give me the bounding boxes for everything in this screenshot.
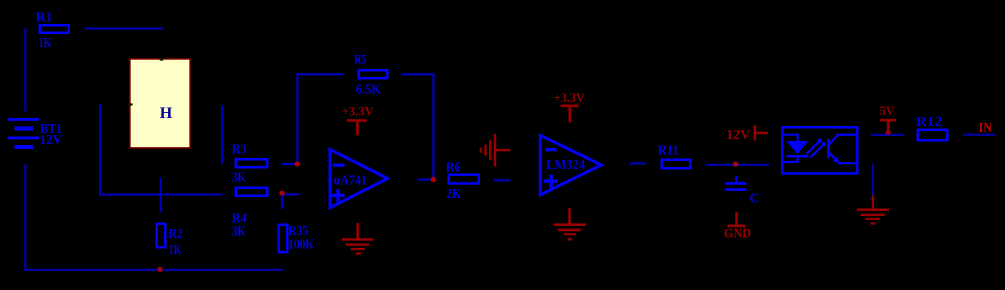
capacitor C — [725, 176, 760, 207]
pin tick top of hall — [160, 58, 164, 61]
svg-text:uA741: uA741 — [334, 172, 367, 187]
pin tick left of hall — [129, 103, 133, 105]
svg-text:5V: 5V — [880, 103, 896, 118]
svg-text:2K: 2K — [446, 187, 461, 202]
wire: opto collector to R12 rail — [871, 134, 903, 136]
svg-text:1K: 1K — [169, 243, 182, 258]
power +3.3V for uA741 — [342, 103, 375, 135]
wire: R6 to LM324 non-inverting — [494, 179, 510, 181]
svg-text:100K: 100K — [288, 238, 314, 253]
resistor R4 — [232, 188, 267, 240]
phototransistor Q base bar — [827, 139, 830, 159]
wire: R1 left vertical to battery — [24, 28, 26, 112]
emitter with arrow — [830, 153, 838, 162]
svg-text:6.5K: 6.5K — [356, 82, 381, 97]
power 5V — [880, 103, 896, 134]
junction dot output node — [431, 177, 436, 182]
wire: bottom rail — [24, 269, 283, 271]
wire: node B down to R35 — [281, 195, 283, 209]
resistor R2 — [157, 224, 183, 258]
resistor R5 — [354, 52, 387, 98]
svg-text:R12: R12 — [916, 115, 942, 130]
wire: hall left vertical — [99, 104, 101, 196]
junction dot on bottom rail — [157, 267, 162, 272]
wire: R1 right horizontal to Hall top — [85, 28, 163, 30]
emitter pin wire — [838, 162, 857, 164]
svg-text:1K: 1K — [39, 36, 52, 51]
resistor R11 — [658, 144, 691, 169]
hall sensor H — [130, 59, 190, 148]
junction dot at capacitor C — [733, 162, 738, 167]
junction dot node A (inverting input) — [294, 161, 299, 166]
junction dot node B (non-inverting input) — [279, 191, 284, 196]
svg-text:+3.3V: +3.3V — [342, 103, 375, 118]
wire: feedback top left horizontal — [296, 73, 343, 75]
svg-text:R2: R2 — [169, 227, 183, 242]
ground under uA741 — [342, 223, 374, 255]
LED cathode pin wire — [782, 161, 799, 163]
svg-text:R6: R6 — [446, 160, 461, 175]
power +3.3V for LM324 — [554, 90, 586, 122]
wire: LM324 output — [630, 162, 646, 164]
svg-text:R11: R11 — [658, 144, 679, 159]
op-amp U2 LM324 — [540, 135, 601, 195]
wire: R11 to optocoupler — [706, 164, 769, 166]
svg-text:GND: GND — [724, 226, 751, 241]
resistor R6 — [446, 160, 479, 202]
wire: uA741 output — [418, 179, 432, 181]
wire: battery bottom vertical — [24, 164, 26, 270]
LED D triangle — [787, 141, 809, 154]
optocoupler U3 — [782, 127, 857, 173]
wire: R3 to inverting node — [282, 163, 296, 165]
wire: R12 to IN port — [963, 134, 995, 136]
svg-text:IN: IN — [979, 120, 992, 135]
svg-text:3K: 3K — [232, 171, 246, 186]
ground under LM324 — [554, 208, 586, 240]
light arrow 2 — [811, 146, 823, 158]
resistor R1 — [36, 10, 69, 51]
svg-text:LM324: LM324 — [546, 158, 585, 173]
wire: mid rail under hall — [99, 194, 222, 196]
wire: opto emitter down to ground — [872, 164, 874, 195]
svg-text:+3.3V: +3.3V — [554, 90, 586, 105]
battery BT1 — [8, 118, 62, 149]
svg-text:3K: 3K — [232, 225, 246, 240]
collector — [830, 135, 838, 144]
resistor R3 — [232, 142, 267, 185]
wire: feedback right vertical — [432, 73, 434, 178]
resistor R12 — [916, 115, 947, 140]
svg-text:R1: R1 — [36, 10, 53, 25]
LED anode pin wire — [782, 134, 799, 136]
op-amp U1 uA741 — [330, 149, 388, 207]
wire: R4 to non-inverting node — [284, 193, 300, 195]
svg-text:H: H — [160, 105, 173, 122]
svg-text:C: C — [750, 192, 760, 207]
LED cathode bar — [787, 155, 809, 157]
power port GND below capacitor — [724, 212, 751, 241]
rotated ground at LM324 inverting input — [480, 134, 511, 167]
wire: hall bottom pin down to R2 — [160, 178, 162, 213]
wire: hall right vertical to R3 — [221, 106, 223, 165]
power 12V — [726, 125, 768, 142]
svg-text:R3: R3 — [232, 142, 247, 157]
wire: feedback top right horizontal — [402, 73, 435, 75]
svg-text:12V: 12V — [40, 133, 62, 148]
light arrow 1 — [807, 142, 819, 154]
svg-text:R5: R5 — [354, 52, 366, 67]
wire: feedback left vertical — [296, 73, 298, 162]
ground at optocoupler emitter — [857, 195, 889, 224]
resistor R35 — [279, 224, 315, 253]
svg-text:12V: 12V — [726, 127, 750, 142]
